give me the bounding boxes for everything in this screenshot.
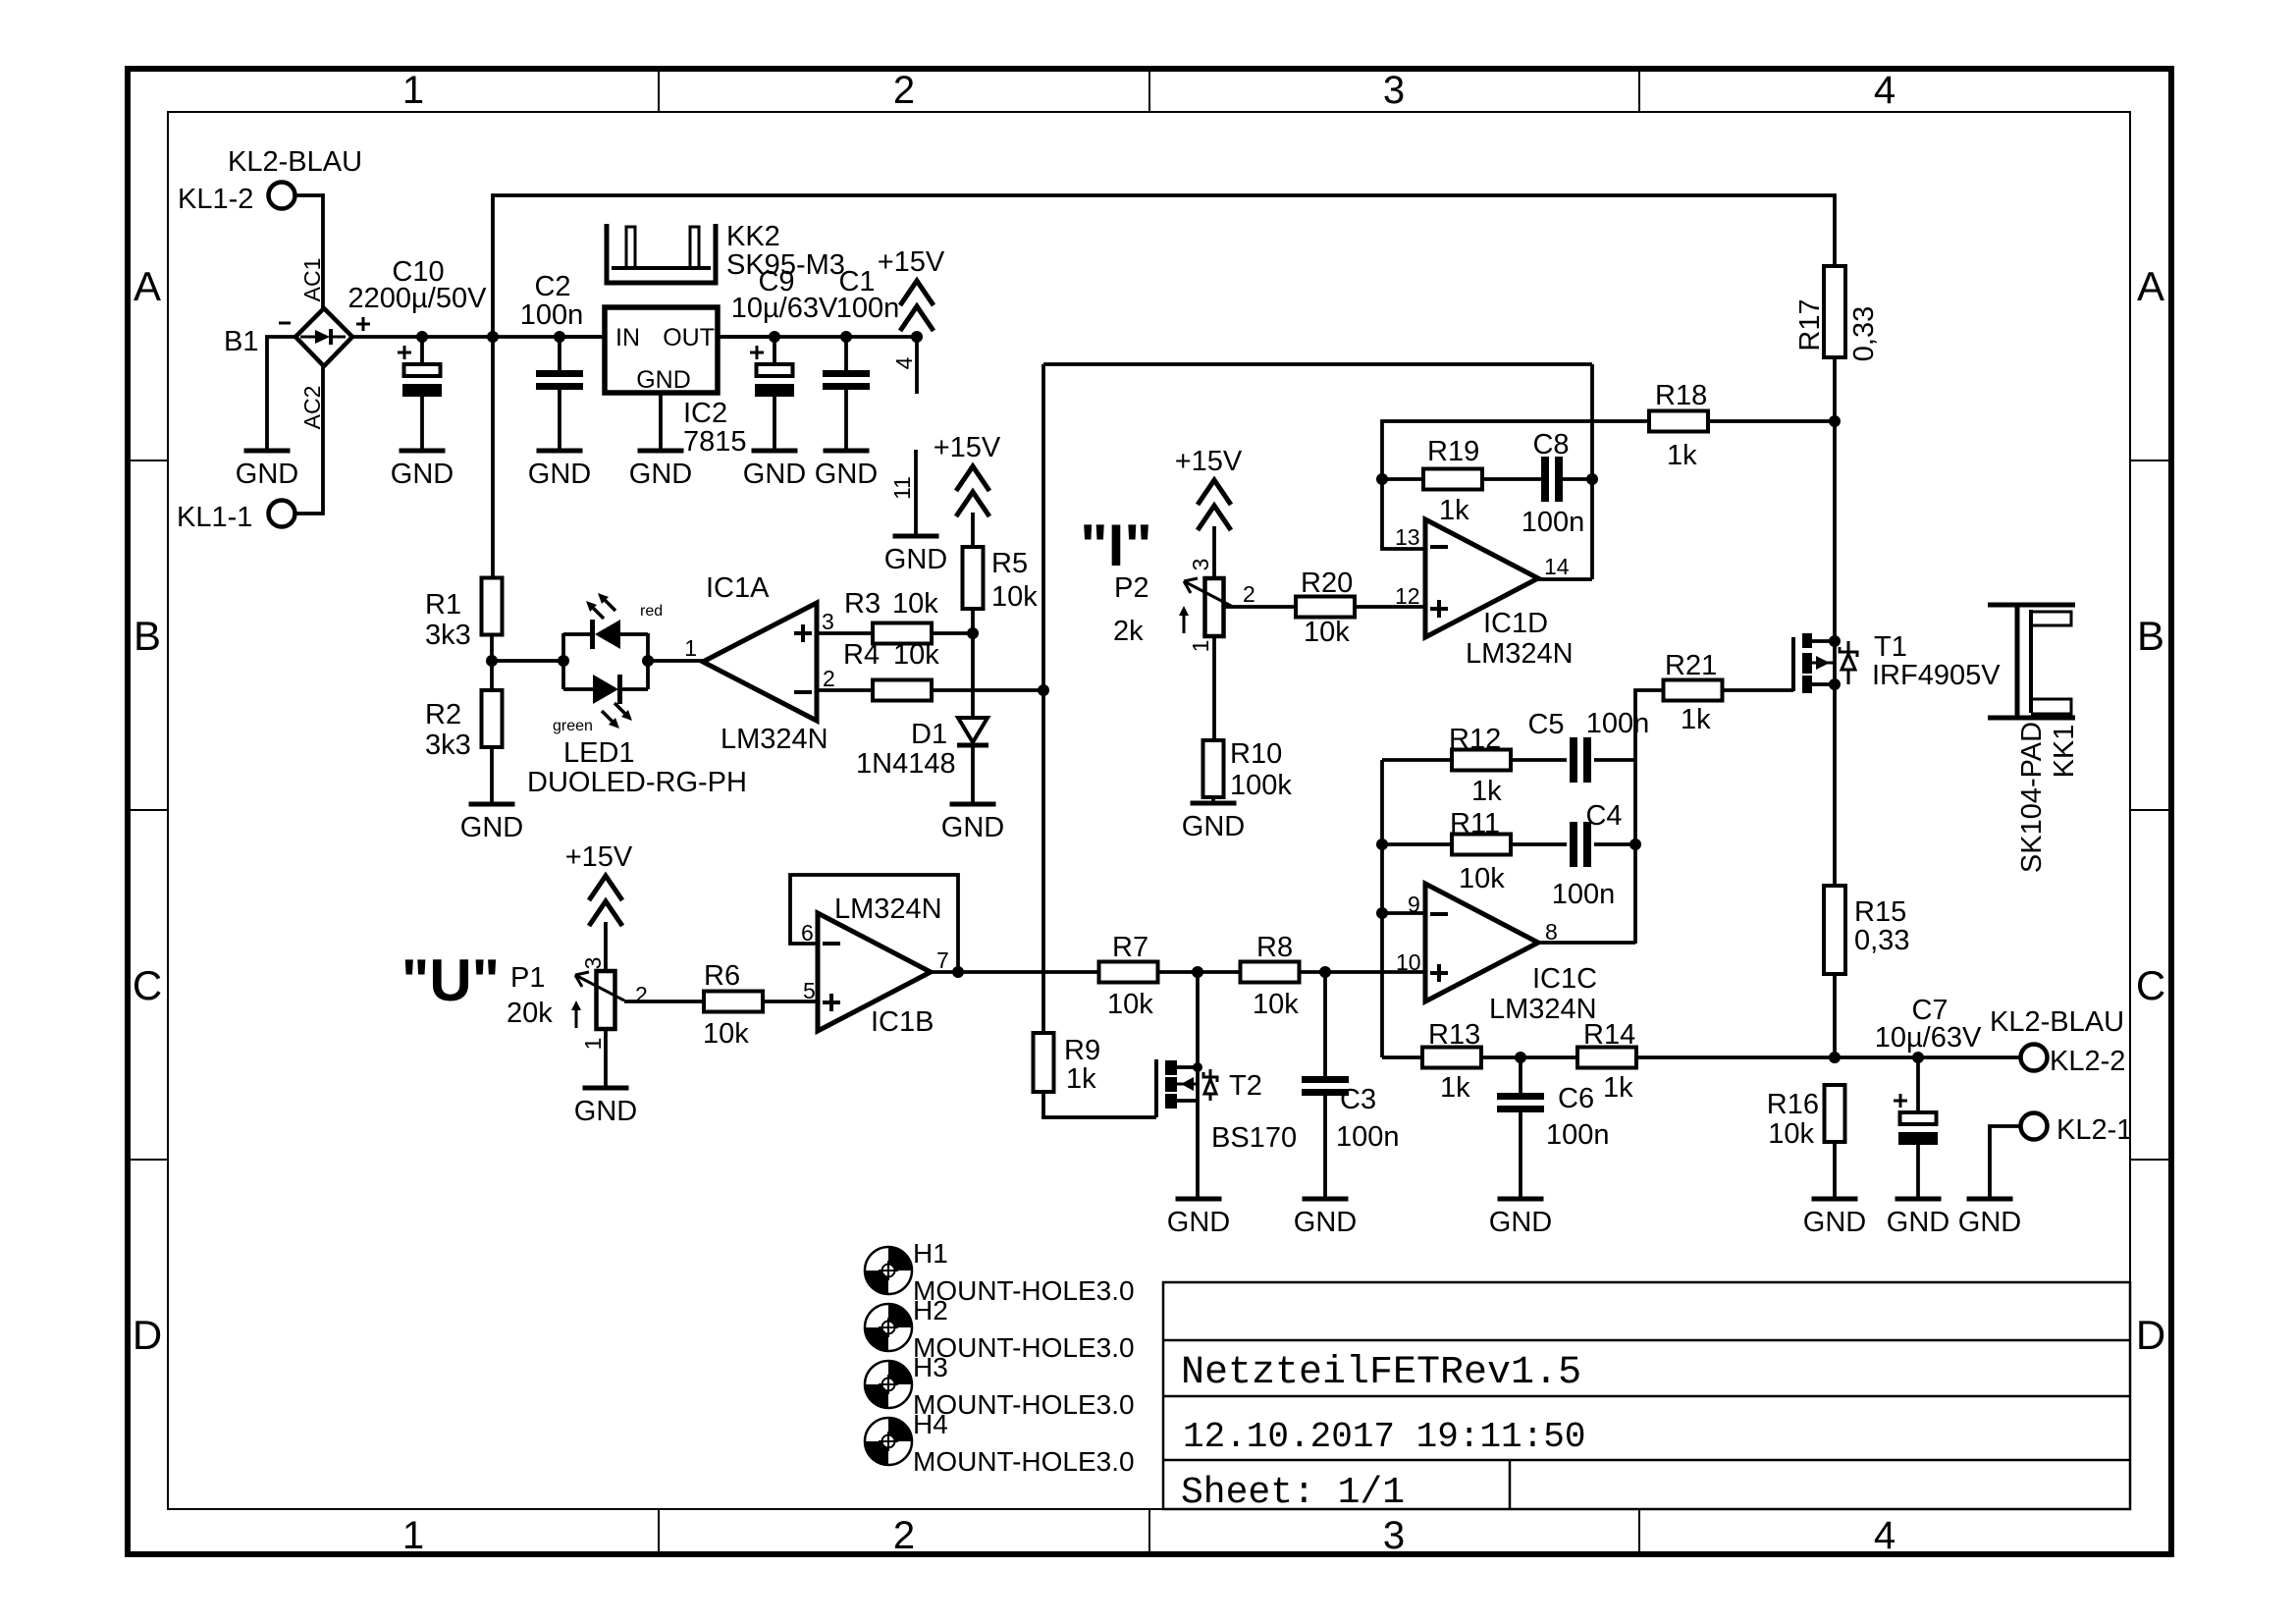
ground under P1 xyxy=(583,1086,629,1091)
bridge B1 plus mark xyxy=(356,323,370,326)
svg-text:GND: GND xyxy=(1803,1207,1866,1238)
wire R3 to R5 node xyxy=(932,631,973,635)
node junction +15V bus xyxy=(911,331,923,343)
frame column tick top 2|3 xyxy=(1148,69,1150,112)
heatsink KK2 SK95-M3 xyxy=(607,224,716,283)
resistor R5 10k xyxy=(963,547,984,609)
svg-text:GND: GND xyxy=(629,459,692,490)
resistor R1 3k3 xyxy=(482,578,503,635)
resistor R15 0,33 xyxy=(1824,886,1845,974)
svg-text:H3: H3 xyxy=(913,1352,948,1382)
svg-text:T2: T2 xyxy=(1229,1070,1262,1102)
ground under C6 xyxy=(1498,1197,1544,1202)
svg-text:100n: 100n xyxy=(1522,507,1585,538)
svg-text:2200µ/50V: 2200µ/50V xyxy=(348,283,488,314)
potentiometer P1 20k xyxy=(597,971,615,1029)
svg-text:10k: 10k xyxy=(703,1018,749,1050)
diode D1 1N4148 xyxy=(958,718,988,742)
wire R6 to IC1B pin5 xyxy=(763,1000,818,1003)
wire R17 to R18 node xyxy=(1833,357,1837,421)
svg-text:100n: 100n xyxy=(1546,1119,1610,1151)
frame row tick left C|D xyxy=(128,1159,168,1161)
wire pin9 node to R13 xyxy=(1382,1055,1422,1059)
node junction C9 xyxy=(769,331,780,343)
wire top long net from bus to R17 xyxy=(493,195,1835,337)
wire IC1A pin2 to R4 xyxy=(817,688,874,692)
wire R9 to T2 gate xyxy=(1043,1092,1156,1117)
bridge rectifier B1 xyxy=(295,308,352,366)
resistor R20 10k xyxy=(1296,597,1355,618)
node junction C2 xyxy=(554,331,565,343)
wire R18 node to T1 source xyxy=(1833,421,1837,641)
wire pin9 stub xyxy=(1382,911,1425,915)
ground under C9 xyxy=(752,449,798,454)
svg-text:C3: C3 xyxy=(1340,1084,1376,1115)
wire +15V to P2 xyxy=(1212,526,1216,578)
terminal KL1-1 xyxy=(269,501,295,527)
svg-text:2: 2 xyxy=(635,982,648,1007)
svg-text:6: 6 xyxy=(801,920,814,946)
IC1 power pin 11 stub xyxy=(914,450,918,536)
transistor T1 IRF4905V xyxy=(1791,637,1795,691)
wire main bus B1 to +15V xyxy=(352,335,917,339)
wire R8 to IC1C pin10 xyxy=(1299,970,1425,974)
wire bus junction down to R1 xyxy=(491,337,495,578)
svg-text:R5: R5 xyxy=(991,548,1028,579)
svg-text:1k: 1k xyxy=(1471,776,1502,807)
svg-text:R3: R3 xyxy=(844,588,881,620)
node junction R15 R16 xyxy=(1829,1052,1841,1063)
capacitor C9 10u/63V xyxy=(773,337,776,364)
wire R19 stub xyxy=(1382,477,1423,481)
svg-text:KL1-1: KL1-1 xyxy=(177,502,252,533)
power +15V arrow at bus end xyxy=(900,281,934,305)
frame column tick top 3|4 xyxy=(1638,69,1640,112)
wire IC1C output pin8 xyxy=(1538,941,1635,945)
svg-text:GND: GND xyxy=(743,459,806,490)
svg-text:10µ/63V: 10µ/63V xyxy=(1875,1022,1982,1054)
svg-text:GND: GND xyxy=(460,812,523,843)
svg-text:1k: 1k xyxy=(1066,1063,1096,1095)
wire R15 to node xyxy=(1833,974,1837,1057)
wire R16 to ground xyxy=(1833,1142,1837,1197)
ground under D1 xyxy=(950,802,996,807)
svg-text:R10: R10 xyxy=(1230,738,1282,770)
svg-text:IC1A: IC1A xyxy=(706,572,770,604)
ground under B1 xyxy=(244,449,291,454)
resistor R8 10k xyxy=(1241,962,1300,983)
frame row tick right C|D xyxy=(2130,1159,2171,1161)
svg-text:2: 2 xyxy=(1243,581,1255,607)
svg-text:GND: GND xyxy=(1294,1207,1357,1238)
svg-text:IRF4905V: IRF4905V xyxy=(1872,660,2001,691)
svg-text:11: 11 xyxy=(889,476,915,500)
wire R10 to ground xyxy=(1211,797,1215,803)
svg-text:1N4148: 1N4148 xyxy=(856,748,956,780)
svg-text:H4: H4 xyxy=(913,1409,948,1439)
svg-text:NetzteilFETRev1.5: NetzteilFETRev1.5 xyxy=(1181,1351,1581,1395)
wire P1 pin1 to ground xyxy=(604,1029,608,1086)
svg-text:0,33: 0,33 xyxy=(1854,925,1909,956)
wire R12 row xyxy=(1382,758,1453,762)
svg-text:C8: C8 xyxy=(1532,429,1569,460)
heatsink KK1 SK104-PAD xyxy=(1988,603,2075,608)
resistor R17 0,33 xyxy=(1824,266,1845,357)
resistor R21 1k xyxy=(1664,680,1723,701)
wire R19 to C8 xyxy=(1482,477,1541,481)
wire R12 to C5 xyxy=(1511,758,1567,762)
wire P2 wiper to R20 xyxy=(1223,605,1296,609)
LED1 DUOLED-RG-PH xyxy=(561,633,565,689)
wire R13 to R14 xyxy=(1481,1055,1577,1059)
frame inner border xyxy=(168,112,2130,1509)
svg-text:1k: 1k xyxy=(1667,440,1697,471)
bridge B1 minus mark xyxy=(279,322,291,325)
svg-text:7: 7 xyxy=(936,947,949,973)
wire P1 wiper to R6 xyxy=(624,1000,704,1003)
svg-text:GND: GND xyxy=(1489,1207,1552,1238)
capacitor C6 100n xyxy=(1519,1057,1522,1093)
terminal KL2-1 xyxy=(2021,1113,2048,1140)
capacitor C3 100n xyxy=(1323,972,1327,1076)
wire R11 stub xyxy=(1382,842,1453,846)
frame column tick top 1|2 xyxy=(658,69,660,112)
wire +15V to R5 xyxy=(971,513,975,548)
wire junction to LED1 xyxy=(492,659,563,663)
node junction C1 xyxy=(840,331,852,343)
svg-text:BS170: BS170 xyxy=(1211,1122,1297,1154)
wire R4 to vertical net xyxy=(932,688,1043,692)
terminal KL1-2 xyxy=(269,183,295,209)
svg-text:1k: 1k xyxy=(1681,704,1711,735)
svg-text:3k3: 3k3 xyxy=(425,620,471,651)
mounting hole H1 xyxy=(865,1247,912,1294)
svg-text:C2: C2 xyxy=(534,271,570,302)
svg-text:Sheet: 1/1: Sheet: 1/1 xyxy=(1181,1472,1405,1514)
ground under C10 xyxy=(400,449,446,454)
frame row tick right B|C xyxy=(2130,809,2171,811)
svg-text:R9: R9 xyxy=(1064,1035,1100,1066)
svg-text:P1: P1 xyxy=(510,962,545,994)
wire IC2 GND pin to ground xyxy=(659,393,663,449)
svg-text:B: B xyxy=(2137,613,2164,659)
svg-text:KL1-2: KL1-2 xyxy=(178,184,253,215)
wire vertical net IC1D-output to R9 xyxy=(1041,364,1045,1033)
svg-text:green: green xyxy=(553,718,593,734)
svg-text:GND: GND xyxy=(1182,811,1245,842)
node junction C3 xyxy=(1319,966,1331,978)
ground under C1 xyxy=(824,449,870,454)
ground under C7 xyxy=(1896,1197,1942,1202)
svg-text:T1: T1 xyxy=(1874,631,1907,663)
svg-text:A: A xyxy=(2137,263,2164,309)
wire C8 to output net xyxy=(1563,477,1592,481)
power +15V arrow above P2 xyxy=(1198,480,1231,505)
svg-text:R15: R15 xyxy=(1854,896,1906,928)
wire IC1D output pin14 xyxy=(1538,577,1592,581)
wire IC1B output xyxy=(931,970,1099,974)
wire T2 drain to R7 R8 node xyxy=(1196,972,1200,1067)
svg-text:R2: R2 xyxy=(425,699,461,730)
svg-text:100k: 100k xyxy=(1230,770,1292,801)
svg-text:10k: 10k xyxy=(1107,989,1153,1020)
resistor R13 1k xyxy=(1422,1048,1481,1068)
node junction R11 left xyxy=(1376,839,1388,850)
svg-text:20k: 20k xyxy=(507,998,553,1029)
svg-text:D: D xyxy=(133,1312,162,1358)
svg-text:D: D xyxy=(2136,1312,2165,1358)
node junction R4 on vertical net xyxy=(1038,684,1049,696)
svg-text:2: 2 xyxy=(893,69,915,112)
svg-text:+15V: +15V xyxy=(878,246,945,278)
svg-text:R11: R11 xyxy=(1450,808,1500,839)
resistor R10 100k xyxy=(1203,740,1224,797)
transistor T2 BS170 xyxy=(1154,1059,1158,1117)
svg-text:GND: GND xyxy=(1167,1207,1230,1238)
mounting hole H4 xyxy=(865,1418,912,1465)
svg-text:AC1: AC1 xyxy=(299,258,325,302)
svg-text:14: 14 xyxy=(1544,554,1570,579)
svg-text:2k: 2k xyxy=(1113,616,1144,647)
ground under C2 xyxy=(537,449,583,454)
svg-text:H1: H1 xyxy=(913,1238,948,1269)
svg-text:1k: 1k xyxy=(1440,1072,1470,1104)
mounting hole H3 xyxy=(865,1361,912,1408)
svg-text:10k: 10k xyxy=(1304,617,1350,648)
svg-text:R20: R20 xyxy=(1301,568,1353,599)
svg-text:MOUNT-HOLE3.0: MOUNT-HOLE3.0 xyxy=(913,1446,1135,1477)
svg-text:LED1: LED1 xyxy=(563,737,635,769)
wire C2 to IC2 IN xyxy=(560,335,605,339)
node junction R18 right xyxy=(1829,415,1841,427)
resistor R12 1k xyxy=(1452,750,1511,771)
capacitor C1 100n xyxy=(844,337,848,370)
resistor R19 1k xyxy=(1423,469,1482,490)
svg-text:GND: GND xyxy=(236,459,298,490)
ground under IC2 xyxy=(638,449,684,454)
ground under T2 xyxy=(1176,1197,1222,1202)
svg-text:red: red xyxy=(640,603,663,620)
wire horizontal net to IC1D output corner xyxy=(1043,362,1592,366)
ground under R10 xyxy=(1191,801,1237,806)
regulator IC2 7815 xyxy=(605,307,718,393)
svg-text:GND: GND xyxy=(1887,1207,1949,1238)
svg-text:SK104-PAD: SK104-PAD xyxy=(2016,722,2048,873)
svg-text:C5: C5 xyxy=(1527,709,1564,740)
wire T2 source to ground xyxy=(1196,1101,1200,1197)
capacitor C4 100n xyxy=(1570,822,1577,867)
potentiometer P2 2k xyxy=(1205,578,1224,636)
svg-text:AC2: AC2 xyxy=(299,386,325,430)
svg-text:0,33: 0,33 xyxy=(1848,306,1880,361)
op-amp IC1B xyxy=(818,913,931,1031)
wire T1 drain down to R14 node xyxy=(1833,684,1837,887)
svg-text:R6: R6 xyxy=(704,960,740,992)
resistor R6 10k xyxy=(704,992,763,1012)
svg-text:4: 4 xyxy=(1874,69,1896,112)
ground under R16 xyxy=(1812,1197,1858,1202)
frame row tick left A|B xyxy=(128,460,168,461)
resistor R9 1k xyxy=(1034,1033,1054,1092)
svg-text:GND: GND xyxy=(636,366,691,394)
node junction main vertical xyxy=(487,331,499,343)
svg-text:3: 3 xyxy=(1383,1514,1405,1557)
svg-text:"I": "I" xyxy=(1080,513,1152,578)
svg-text:+15V: +15V xyxy=(1175,446,1243,477)
svg-text:3k3: 3k3 xyxy=(425,730,471,761)
svg-text:LM324N: LM324N xyxy=(834,893,942,925)
svg-text:R21: R21 xyxy=(1665,650,1717,681)
svg-text:R17: R17 xyxy=(1794,298,1826,351)
frame column tick bottom 1|2 xyxy=(658,1509,660,1554)
svg-text:10k: 10k xyxy=(893,639,939,671)
wire B1 minus to ground xyxy=(267,337,295,449)
svg-text:GND: GND xyxy=(574,1096,637,1127)
svg-text:100n: 100n xyxy=(520,299,584,331)
wire +15V to P1 xyxy=(604,922,608,971)
svg-text:R18: R18 xyxy=(1655,380,1707,411)
wire R11 to C4 xyxy=(1511,842,1567,846)
ground at IC1 pin 11 xyxy=(893,534,939,539)
svg-text:IC2: IC2 xyxy=(683,398,727,429)
svg-text:H2: H2 xyxy=(913,1295,948,1325)
svg-text:+15V: +15V xyxy=(565,841,633,873)
svg-text:12: 12 xyxy=(1395,583,1420,609)
svg-text:IC1D: IC1D xyxy=(1483,608,1548,639)
capacitor C5 100n xyxy=(1570,737,1577,783)
svg-text:GND: GND xyxy=(941,812,1004,843)
ground under KL2-1 xyxy=(1967,1197,2013,1202)
svg-text:2: 2 xyxy=(823,666,835,691)
wire R20 to IC1D pin12 xyxy=(1355,605,1425,609)
svg-text:+15V: +15V xyxy=(934,432,1001,463)
wire R1 to R2 xyxy=(490,634,494,691)
svg-text:KK1: KK1 xyxy=(2049,725,2080,779)
frame column tick bottom 3|4 xyxy=(1638,1509,1640,1554)
wire R7 to R8 xyxy=(1157,970,1241,974)
wire C5 to output vertical xyxy=(1594,758,1635,762)
svg-text:D1: D1 xyxy=(911,719,947,750)
power +15V arrow above P1 xyxy=(589,876,622,900)
svg-text:3: 3 xyxy=(580,957,606,970)
svg-text:GND: GND xyxy=(815,459,878,490)
wire C4 to output vertical xyxy=(1594,842,1635,846)
wire LED1 to IC1A output xyxy=(648,659,703,663)
svg-text:B: B xyxy=(133,613,161,659)
svg-text:10k: 10k xyxy=(1459,863,1505,894)
svg-text:GND: GND xyxy=(1958,1207,2021,1238)
svg-text:1k: 1k xyxy=(1439,495,1469,526)
svg-text:10µ/63V: 10µ/63V xyxy=(731,293,838,324)
node junction R19 left xyxy=(1376,473,1388,485)
svg-text:10k: 10k xyxy=(991,581,1038,613)
wire R21 to output vertical xyxy=(1635,690,1663,944)
capacitor C2 100n xyxy=(558,337,561,370)
svg-text:100n: 100n xyxy=(1552,879,1616,910)
svg-text:R13: R13 xyxy=(1428,1019,1480,1051)
svg-text:5: 5 xyxy=(803,978,816,1003)
svg-text:9: 9 xyxy=(1408,892,1420,917)
node junction R1 R2 LED xyxy=(486,655,498,667)
node junction T1 drain xyxy=(1829,678,1841,690)
svg-text:3: 3 xyxy=(822,609,834,634)
svg-text:KL2-BLAU: KL2-BLAU xyxy=(1990,1006,2124,1038)
svg-text:OUT: OUT xyxy=(663,324,715,352)
svg-text:10k: 10k xyxy=(1253,989,1299,1020)
node junction T2 drain top xyxy=(1192,966,1203,978)
ground under C3 xyxy=(1303,1197,1349,1202)
wire KL1-2 to bridge AC1 xyxy=(295,195,323,310)
svg-text:1: 1 xyxy=(402,1514,424,1557)
svg-text:R1: R1 xyxy=(425,589,461,621)
wire IC1D pin13 node xyxy=(1382,421,1649,549)
node junction C4 right xyxy=(1629,839,1641,850)
svg-text:3: 3 xyxy=(1188,559,1213,571)
wire R2 to ground xyxy=(490,746,494,802)
svg-text:B1: B1 xyxy=(224,326,258,357)
node junction T1 source xyxy=(1829,635,1841,647)
resistor R2 3k3 xyxy=(482,690,503,747)
svg-text:R4: R4 xyxy=(843,639,880,671)
svg-text:IC1C: IC1C xyxy=(1532,963,1597,995)
svg-text:KK2: KK2 xyxy=(726,221,780,252)
resistor R14 1k xyxy=(1577,1048,1636,1068)
node junction C8 on output vertical xyxy=(1586,473,1598,485)
mounting hole H2 xyxy=(865,1304,912,1351)
svg-text:KL2-BLAU: KL2-BLAU xyxy=(228,146,362,178)
svg-text:A: A xyxy=(133,263,161,309)
op-amp IC1A (mirrored) xyxy=(703,603,817,721)
svg-text:13: 13 xyxy=(1395,524,1420,550)
wire T1 gate to R21 xyxy=(1723,688,1793,692)
resistor R7 10k xyxy=(1099,962,1158,983)
svg-text:10k: 10k xyxy=(892,588,938,620)
svg-text:DUOLED-RG-PH: DUOLED-RG-PH xyxy=(527,767,747,798)
wire IC1C feedback left vertical xyxy=(1380,760,1384,1057)
svg-text:1: 1 xyxy=(402,69,424,112)
svg-text:1: 1 xyxy=(1188,640,1213,653)
resistor R3 10k xyxy=(873,623,932,644)
wire output node to KL2-2 xyxy=(1835,1055,2020,1059)
svg-text:R7: R7 xyxy=(1112,932,1148,963)
resistor R16 10k xyxy=(1825,1085,1845,1142)
node junction C6 xyxy=(1515,1052,1526,1063)
wire KL1-1 to bridge AC2 xyxy=(295,364,323,514)
power +15V arrow above R5 xyxy=(956,466,989,491)
frame column tick bottom 2|3 xyxy=(1148,1509,1150,1554)
svg-text:KL2-2: KL2-2 xyxy=(2050,1046,2125,1077)
svg-text:IN: IN xyxy=(615,324,640,352)
svg-text:GND: GND xyxy=(884,544,947,575)
svg-text:7815: 7815 xyxy=(683,426,747,458)
svg-text:R8: R8 xyxy=(1256,932,1293,963)
svg-text:C6: C6 xyxy=(1558,1083,1594,1114)
capacitor C7 10u/63V xyxy=(1916,1057,1920,1112)
svg-text:P2: P2 xyxy=(1114,572,1148,604)
svg-text:R14: R14 xyxy=(1583,1019,1635,1051)
svg-text:100n: 100n xyxy=(836,293,900,324)
svg-text:3: 3 xyxy=(1383,69,1405,112)
svg-text:C: C xyxy=(133,962,162,1008)
svg-text:1k: 1k xyxy=(1603,1072,1633,1104)
svg-text:R19: R19 xyxy=(1427,436,1479,467)
resistor R11 10k xyxy=(1452,835,1511,855)
wire R14 to output node xyxy=(1636,1055,1835,1059)
op-amp IC1C xyxy=(1425,884,1538,1001)
node junction C7 xyxy=(1912,1052,1924,1063)
svg-text:LM324N: LM324N xyxy=(1489,994,1597,1025)
svg-text:100n: 100n xyxy=(1336,1121,1400,1153)
